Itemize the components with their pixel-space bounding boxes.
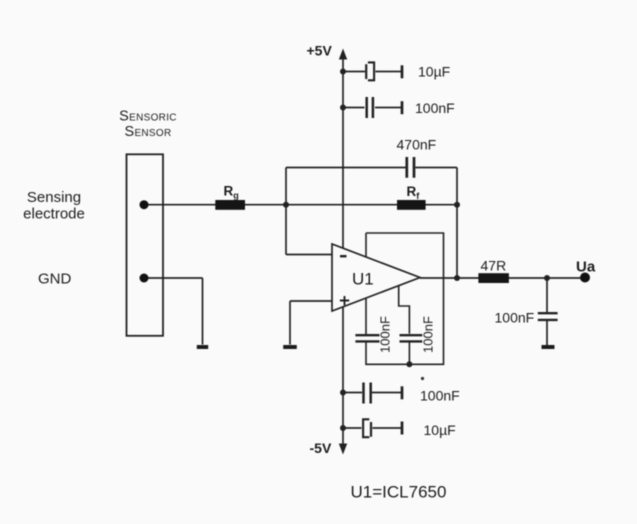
wire non-inverting input to ground bbox=[289, 301, 291, 345]
capacitor 470nF plates bbox=[407, 157, 414, 178]
ground sensor GND bbox=[197, 345, 208, 349]
resistor 47R body bbox=[478, 273, 509, 283]
wire supply rail vertical bbox=[342, 56, 344, 448]
svg-text:-5V: -5V bbox=[310, 440, 332, 456]
capacitor 100nF bottom plates bbox=[364, 383, 371, 404]
terminal 100nF bottom bbox=[401, 386, 404, 399]
svg-text:10µF: 10µF bbox=[424, 422, 456, 438]
wire +5V to 10uF cap bbox=[343, 71, 402, 73]
supply +5V arrow bbox=[339, 49, 347, 60]
stray dot artifact bbox=[421, 377, 424, 380]
ground non-inverting input bbox=[283, 345, 297, 349]
svg-text:+5V: +5V bbox=[307, 43, 333, 59]
wire clamp cap right to box bottom bbox=[408, 341, 410, 364]
capacitor output 100nF plates bbox=[538, 313, 558, 320]
wire feedback right vertical bbox=[456, 168, 458, 279]
capacitor 10uF top (polarized) bbox=[366, 62, 374, 80]
svg-text:100nF: 100nF bbox=[378, 316, 393, 353]
junction -5V 100nF bbox=[340, 390, 346, 396]
svg-text:10µF: 10µF bbox=[418, 64, 450, 80]
junction node line right bbox=[454, 202, 460, 208]
wire feedback top (470nF branch) bbox=[286, 167, 457, 169]
svg-text:Sensor: Sensor bbox=[124, 124, 171, 140]
capacitor 100nF top plates bbox=[367, 97, 373, 118]
wire -5V to 10uF cap bbox=[343, 427, 402, 429]
resistor Rg body bbox=[215, 200, 245, 210]
svg-text:100nF: 100nF bbox=[415, 100, 455, 116]
junction +5V 100nF bbox=[340, 105, 346, 111]
terminal 10uF bottom bbox=[401, 422, 404, 435]
wire output 100nF cap vertical bbox=[546, 278, 548, 345]
svg-text:Sensoric: Sensoric bbox=[119, 109, 177, 125]
op-amp minus input sign bbox=[340, 255, 347, 257]
node sensor GND pin bbox=[140, 274, 149, 283]
svg-text:U1=ICL7650: U1=ICL7650 bbox=[351, 483, 447, 502]
junction +5V 10uF bbox=[340, 69, 346, 75]
capacitor clamp right 100nF plates bbox=[400, 335, 423, 341]
terminal 100nF top bbox=[401, 101, 404, 114]
node Ua terminal bbox=[580, 273, 590, 283]
svg-text:Ua: Ua bbox=[576, 259, 596, 276]
svg-text:47R: 47R bbox=[481, 258, 507, 274]
junction -5V 10uF bbox=[340, 425, 346, 431]
svg-text:Sensing: Sensing bbox=[27, 189, 81, 206]
clamp capacitor guard box around U1 bbox=[366, 233, 444, 364]
wire feedback left vertical bbox=[285, 168, 287, 255]
ground output cap bbox=[542, 345, 555, 349]
op-amp plus input sign bbox=[340, 296, 349, 305]
svg-text:U1: U1 bbox=[352, 270, 374, 289]
junction node line left bbox=[283, 202, 289, 208]
svg-text:470nF: 470nF bbox=[397, 137, 437, 153]
svg-text:100nF: 100nF bbox=[420, 388, 460, 404]
svg-text:electrode: electrode bbox=[23, 206, 85, 223]
wire non-inverting input bbox=[290, 300, 332, 302]
junction output cap bbox=[544, 275, 550, 281]
wire clamp cap right tap from op-amp lower edge bbox=[399, 286, 410, 334]
wire inverting input bbox=[286, 254, 332, 256]
capacitor 10uF bottom (polarized) bbox=[363, 419, 371, 437]
sensor box bbox=[127, 154, 164, 335]
svg-text:GND: GND bbox=[38, 271, 72, 288]
svg-text:100nF: 100nF bbox=[420, 316, 435, 353]
svg-text:100nF: 100nF bbox=[495, 310, 535, 326]
wire +5V to 100nF cap bbox=[343, 107, 402, 109]
terminal 10uF top bbox=[401, 65, 404, 78]
node sensing electrode pin bbox=[140, 200, 149, 209]
wire op-amp output bbox=[420, 277, 584, 279]
wire main input node line bbox=[144, 204, 457, 206]
wire sensor GND to ground bbox=[144, 278, 203, 345]
junction feedback output bbox=[454, 275, 460, 281]
supply -5V arrow bbox=[339, 444, 347, 455]
capacitor clamp left 100nF plates bbox=[355, 335, 379, 341]
junction clamp caps bottom bbox=[406, 361, 412, 367]
wire -5V to 100nF cap bbox=[343, 392, 402, 394]
resistor Rf body bbox=[397, 200, 426, 210]
op-amp U1 triangle bbox=[332, 244, 420, 311]
